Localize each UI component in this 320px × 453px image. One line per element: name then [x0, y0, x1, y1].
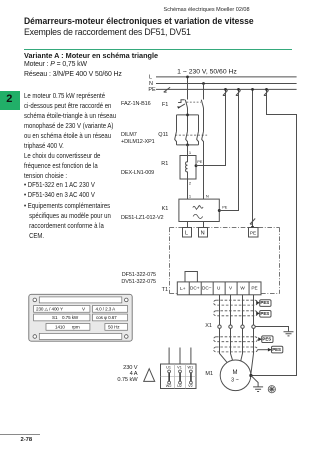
svg-text:cos φ 0.67: cos φ 0.67: [96, 315, 117, 320]
supply rail N: [156, 83, 297, 85]
designator T1: [144, 287, 168, 293]
terminal box grid: [161, 364, 197, 389]
cable shield S1: [214, 300, 258, 305]
svg-text:3 ~: 3 ~: [231, 378, 239, 384]
motor terminal box wires: [169, 348, 191, 365]
PE slash D: [264, 90, 269, 95]
terminal strip X1 circles: [218, 325, 255, 328]
wire F1 pole1 to Q11: [187, 109, 189, 115]
wire K1 to N terminal: [203, 222, 205, 228]
chapter tab 2: [0, 91, 20, 110]
terminal row T1: [177, 282, 261, 295]
svg-text:rpm: rpm: [72, 324, 80, 329]
bullet 1: [24, 181, 95, 189]
designator X1: [188, 323, 212, 329]
motor line: [24, 61, 87, 68]
motor M1 circle: [220, 360, 251, 391]
labels motor terminals: [166, 366, 194, 389]
node K1 PE: [218, 209, 221, 212]
wire L drop to F1: [187, 77, 189, 100]
wire PE rail to motor (right run): [251, 89, 296, 375]
variant heading: [24, 51, 158, 60]
subtitle: [24, 27, 191, 37]
terminal PE box: [249, 228, 259, 238]
wire V to motor: [231, 295, 234, 362]
node N tap: [202, 82, 205, 85]
terminal links U1-W2 V1-U2 W1-V2: [168, 370, 193, 384]
svg-text:PES: PES: [272, 347, 281, 352]
svg-text:1410: 1410: [55, 324, 65, 329]
node L tap: [186, 76, 189, 79]
earth terminal symbol (circled): [268, 386, 275, 393]
filter K1 wave symbol top: [193, 205, 203, 210]
device label FAZ-1N-B16: [121, 101, 151, 107]
wire X1 PE to earth: [255, 327, 288, 332]
ground X1: [284, 332, 294, 336]
svg-text:V2: V2: [188, 384, 193, 388]
node PE tap B: [237, 88, 240, 91]
supply rail PE: [156, 88, 297, 90]
svg-text:L: L: [185, 231, 188, 237]
svg-text:V1: V1: [177, 366, 182, 370]
node motor PE: [249, 374, 252, 377]
header running title: [164, 7, 250, 13]
node PE tap C: [251, 88, 254, 91]
cable shield S4: [214, 347, 258, 352]
terminal L box: [183, 228, 192, 238]
svg-text:U: U: [217, 286, 221, 291]
PES tag 4: [258, 346, 283, 353]
footer page number 2-78: [21, 437, 33, 443]
node Q11 in: [186, 114, 189, 117]
reactor R1 box: [180, 156, 196, 180]
svg-text:DC+: DC+: [190, 286, 200, 291]
contactor Q11 paralleled poles: [175, 115, 199, 145]
network line: [24, 71, 122, 78]
svg-text:PE: PE: [148, 87, 156, 93]
body paragraph 2: [24, 151, 100, 181]
device label DE51-LZ1-012-V2: [121, 215, 163, 221]
wire Q11 pole4 to K1 N: [202, 109, 204, 200]
designator M1: [189, 371, 213, 377]
svg-text:PE: PE: [222, 206, 228, 210]
wire K1 PE to rail: [219, 89, 238, 210]
wire K1 to L terminal: [187, 222, 189, 228]
node PE tap D: [265, 88, 268, 91]
breaker F1 trip link (dashed): [187, 101, 201, 103]
bullet 3: [24, 201, 111, 241]
wire PE to motor node: [251, 295, 254, 375]
green rule: [24, 49, 293, 50]
svg-text:50 Hz: 50 Hz: [108, 324, 120, 329]
converter type labels: [100, 272, 156, 285]
breaker F1 pole 2: [201, 100, 203, 109]
cable shield S3: [214, 337, 258, 342]
motor terminal box: [161, 364, 197, 389]
svg-text:DC−: DC−: [202, 286, 212, 291]
svg-text:PES: PES: [260, 300, 269, 305]
node PE tap A: [224, 88, 227, 91]
designator K1: [144, 206, 168, 212]
jumper L+ to DC+: [185, 272, 197, 282]
device label DILM7 +DILM12-XP1: [121, 132, 155, 146]
wire U to motor: [220, 295, 229, 364]
breaker F1 pole 1: [177, 100, 187, 109]
terminal N box: [199, 228, 208, 238]
filter K1 wave symbol bottom: [193, 214, 203, 218]
svg-text:L: L: [149, 75, 152, 81]
svg-text:4.0 / 2.3 A: 4.0 / 2.3 A: [96, 306, 117, 311]
svg-text:U1: U1: [166, 366, 171, 370]
wire motor to ground: [251, 376, 258, 387]
svg-text:PE: PE: [197, 160, 203, 164]
svg-text:N: N: [201, 231, 205, 237]
wire N drop to F1 pole 2: [203, 84, 205, 100]
svg-text:0.75 kW: 0.75 kW: [62, 315, 79, 320]
wire PE rail to T1 PE terminal: [252, 89, 254, 227]
svg-text:1 ~ 230 V, 50/60 Hz: 1 ~ 230 V, 50/60 Hz: [177, 68, 237, 75]
node T1 PE boundary: [251, 226, 254, 229]
wire W to motor: [240, 295, 242, 363]
designator F1: [144, 102, 168, 108]
PE slash C: [250, 219, 255, 225]
svg-text:M: M: [233, 370, 238, 376]
filter K1 box: [179, 199, 219, 221]
PES tag 3: [258, 336, 273, 343]
svg-text:W2: W2: [166, 384, 172, 388]
svg-text:U2: U2: [177, 384, 182, 388]
svg-text:230 △ / 400 Y: 230 △ / 400 Y: [36, 306, 63, 311]
supply rail L: [156, 76, 297, 78]
schematic small texts: [36, 68, 281, 388]
ground motor: [253, 387, 263, 392]
wire Q11 to R1: [187, 145, 189, 156]
PE slash A: [223, 90, 228, 95]
svg-text:2: 2: [189, 181, 192, 186]
wire R1 PE to rail: [196, 89, 226, 165]
page title: [24, 16, 254, 26]
designator R1: [144, 161, 168, 167]
footer rule: [0, 434, 40, 435]
wire R1 to K1: [187, 179, 189, 199]
rating plate: [29, 294, 132, 341]
delta symbol: [144, 369, 155, 382]
cable shield S2: [214, 311, 258, 316]
svg-text:PE: PE: [250, 230, 256, 235]
designator Q11: [144, 132, 168, 138]
PE slash B: [236, 90, 241, 95]
svg-text:L+: L+: [180, 286, 186, 291]
bullet 2: [24, 191, 95, 199]
converter T1 boundary (dash-dot): [170, 228, 280, 294]
node R1 PE: [195, 164, 198, 167]
body paragraph 1: [24, 91, 116, 151]
svg-text:1: 1: [189, 150, 192, 155]
svg-text:S1: S1: [52, 315, 58, 320]
svg-text:PE: PE: [251, 286, 257, 291]
rating plate texts: [36, 306, 120, 329]
PE line marker slash: [164, 87, 170, 92]
contactor Q11 mechanical link (dashed): [175, 134, 207, 136]
svg-text:PES: PES: [262, 336, 271, 341]
labels terminal row: [180, 286, 258, 291]
labels PES: [260, 300, 281, 352]
svg-text:W1: W1: [188, 366, 194, 370]
svg-text:N: N: [206, 194, 209, 199]
motor data 230V 4A 0.75kW: [97, 365, 138, 383]
reactor R1 coil: [186, 156, 188, 180]
svg-text:PES: PES: [260, 311, 269, 316]
PES tag 1: [256, 300, 271, 307]
svg-text:1: 1: [189, 194, 192, 199]
device label DEX-LN1-009: [121, 170, 154, 176]
PES tag 2: [256, 311, 271, 318]
node Q11 out: [186, 144, 189, 147]
svg-text:W: W: [240, 286, 245, 291]
